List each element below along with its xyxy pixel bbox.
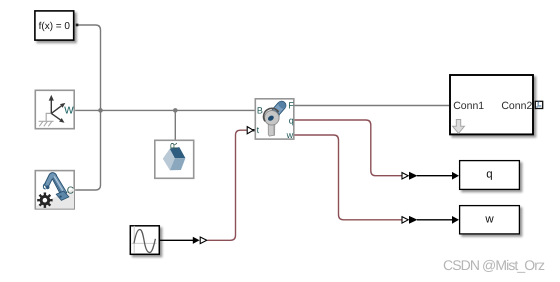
cube top face — [170, 147, 186, 158]
joint icon stem — [268, 116, 275, 136]
wire: sine converter to joint t port (physical signal) — [208, 130, 247, 240]
joint icon blue cylinder — [270, 99, 288, 118]
arrowhead: into q outport — [452, 172, 459, 180]
icon ground wedge — [36, 189, 74, 209]
wire: w signal to outport — [417, 219, 453, 221]
svg-text:F: F — [288, 101, 294, 111]
wire: solver to vertical bus and down to mechanism C — [75, 25, 100, 190]
wire: joint w output (physical signal) — [295, 135, 402, 220]
arrowhead: into w outport — [452, 216, 459, 224]
wire: joint F port to subsystem Conn1 — [295, 105, 450, 107]
sine icon axes — [132, 226, 157, 253]
solver configuration block f(x)=0 — [35, 11, 78, 40]
sine icon curve — [134, 229, 155, 252]
icon gear — [37, 193, 52, 208]
port: q converter hollow triangle — [402, 173, 408, 180]
svg-text:C: C — [67, 186, 74, 197]
wire: world frame W to joint B port — [75, 109, 254, 111]
svg-text:Conn2: Conn2 — [501, 100, 532, 112]
svg-text:q: q — [289, 115, 294, 125]
joint icon disc — [265, 111, 280, 126]
wire: joint q output (physical signal) — [295, 120, 402, 176]
svg-text:f(x) = 0: f(x) = 0 — [39, 21, 71, 32]
world frame icon axes — [51, 100, 61, 120]
subsystem block — [450, 75, 543, 134]
arrowhead: sine output solid arrow — [193, 237, 200, 244]
arrowhead: q converter solid arrow — [409, 172, 418, 180]
icon arm base plate — [56, 191, 69, 200]
cube right face — [170, 158, 186, 170]
icon gripper and ball — [46, 185, 50, 189]
junction node at brick branch — [173, 108, 178, 113]
arrowhead: w converter solid arrow — [409, 216, 418, 224]
world frame block — [35, 90, 74, 128]
icon robot arm — [44, 173, 67, 196]
outport block w — [460, 206, 520, 234]
junction node at bus — [98, 108, 103, 113]
revolute joint block — [255, 99, 294, 140]
wire: sine wave output signal — [160, 239, 193, 241]
port: joint t input hollow triangle — [247, 127, 255, 134]
world frame icon ground hatch — [39, 113, 54, 121]
subsystem down arrow icon — [453, 120, 465, 134]
sine wave block — [130, 226, 159, 255]
svg-text:w: w — [484, 213, 494, 225]
outport block q — [460, 161, 520, 190]
svg-text:B: B — [257, 105, 263, 115]
svg-text:q: q — [486, 169, 492, 181]
svg-text:R: R — [169, 142, 180, 149]
wire: q signal to outport — [417, 175, 453, 177]
svg-text:Conn1: Conn1 — [453, 100, 484, 112]
cube left face — [163, 149, 175, 171]
wire: drop to brick solid R port — [174, 110, 176, 139]
mechanism configuration block — [35, 171, 74, 209]
port: sine converter hollow triangle — [200, 237, 207, 244]
svg-text:w: w — [286, 130, 294, 140]
svg-text:CSDN @Mist_Orz: CSDN @Mist_Orz — [443, 257, 545, 273]
svg-text:w: w — [63, 102, 74, 117]
physical port Conn2 square — [535, 101, 542, 108]
watermark — [443, 257, 545, 273]
port: w converter hollow triangle — [402, 217, 408, 224]
brick solid block — [155, 140, 194, 178]
